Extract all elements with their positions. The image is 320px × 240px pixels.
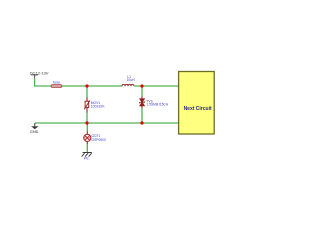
wire MOV1 down to bottom rail bbox=[86, 113, 88, 124]
varistor MOV1 bbox=[84, 98, 90, 113]
fuse body bbox=[51, 85, 62, 88]
svg-text:fuse: fuse bbox=[53, 80, 61, 85]
node junction bottom rail x=87 bbox=[85, 121, 88, 124]
wire from port down to main rail bbox=[35, 78, 51, 86]
wire top rail down to MOV1 bbox=[86, 86, 88, 98]
wire inductor to Next Circuit block bbox=[134, 85, 179, 87]
wire GDT1 down to earth bbox=[86, 141, 88, 144]
bottom rail wire bbox=[35, 122, 179, 124]
node junction bottom rail x=142 bbox=[140, 121, 143, 124]
earth ground PE symbol bbox=[82, 153, 92, 157]
svg-text:Next Circuit: Next Circuit bbox=[184, 106, 212, 112]
node junction top rail x=142 bbox=[140, 84, 143, 87]
svg-text:GND: GND bbox=[30, 130, 39, 134]
port DC12-13V symbol bbox=[31, 75, 38, 78]
Next Circuit block bbox=[179, 72, 215, 135]
ground GND symbol bbox=[31, 123, 39, 129]
inductor L1 coil bbox=[122, 84, 134, 86]
svg-text:10uH: 10uH bbox=[127, 78, 136, 82]
wire TVS down to bottom rail bbox=[141, 108, 143, 123]
svg-text:GSP0900: GSP0900 bbox=[92, 138, 106, 142]
node junction top rail x=87 bbox=[85, 84, 88, 87]
wire bottom rail down to GDT1 bbox=[86, 123, 88, 132]
wire top rail down to TVS bbox=[141, 86, 143, 97]
TVS diode (bidirectional) bbox=[139, 96, 144, 108]
svg-text:PE: PE bbox=[84, 157, 89, 161]
svg-text:10D181K: 10D181K bbox=[91, 105, 106, 109]
gas discharge tube GDT1 bbox=[84, 134, 91, 141]
wire fuse to inductor bbox=[62, 85, 122, 87]
svg-text:1.5SMBJ15CA: 1.5SMBJ15CA bbox=[146, 103, 168, 107]
